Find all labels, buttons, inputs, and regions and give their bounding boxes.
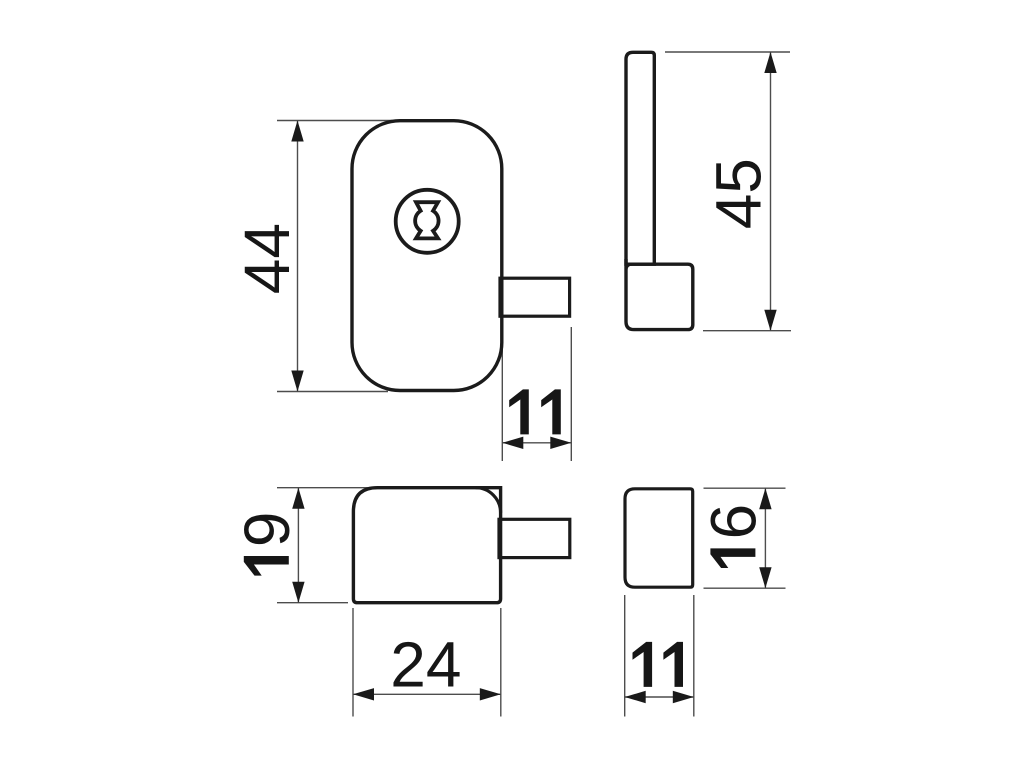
svg-text:44: 44: [231, 223, 303, 294]
svg-text:24: 24: [390, 628, 461, 700]
svg-text:45: 45: [703, 158, 775, 229]
svg-text:6: 6: [697, 504, 769, 540]
svg-text:9: 9: [231, 512, 303, 548]
